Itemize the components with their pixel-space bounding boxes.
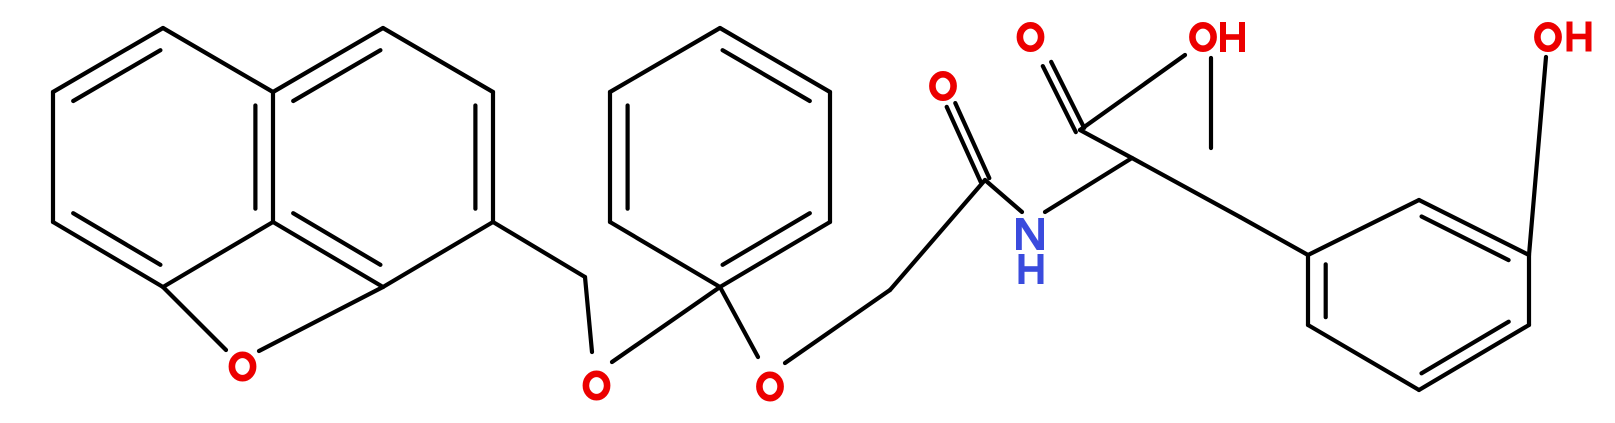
- node OH7 phenol hydroxyl: [1537, 25, 1558, 48]
- wire bond K5-K6 (double): [1306, 255, 1310, 325]
- wire bond A6-A1 (double): [53, 28, 163, 92]
- node O4 amide carbonyl O: [932, 74, 953, 97]
- wire bond B3-D1: [493, 222, 585, 277]
- node N1 amide nitrogen: [1016, 218, 1022, 250]
- wire bond O3-E1: [785, 290, 890, 363]
- wire bond A4-A5 (double): [53, 222, 163, 287]
- wire bond D1-O2: [585, 277, 592, 352]
- wire bond OH6-CH3 dangling: [1209, 58, 1213, 148]
- wire bond K2-K3: [1527, 255, 1531, 325]
- wire bond C6-C1: [610, 28, 720, 92]
- wire bond G1-H1: [1080, 130, 1132, 158]
- wire bond C4-O3: [720, 287, 758, 357]
- wire bond K2-OH7: [1529, 57, 1546, 255]
- wire bond I1-K6: [1240, 217, 1308, 255]
- wire bond A2-B1 (double): [273, 28, 383, 92]
- wire bond K3-K4 (double): [1419, 325, 1529, 390]
- wire bond C3-C4 (double): [720, 222, 830, 287]
- wire bond C5-C6 (double): [608, 92, 612, 222]
- wire bond B4-A3 (double): [273, 222, 383, 287]
- wire bond A4-O1: [163, 287, 226, 350]
- wire bond F1-N1: [985, 180, 1022, 212]
- wire bond K1-K2 (double): [1419, 200, 1529, 255]
- wire bond E1-F1: [890, 180, 985, 290]
- node O3 ester oxygen: [759, 375, 780, 398]
- wire bond B3-B4: [383, 222, 493, 287]
- node H of NH: [1019, 254, 1025, 284]
- wire bond B1-B2: [383, 28, 493, 92]
- node O5 acid carbonyl O: [1020, 25, 1041, 48]
- wire bond G1-I1: [1132, 158, 1240, 217]
- wire bond C2-C3: [828, 92, 832, 222]
- wire bond O2-C4: [612, 287, 720, 362]
- wire bond B2-B3 (double): [491, 92, 495, 222]
- wire bond K6-K1: [1308, 200, 1419, 255]
- node O1 ring oxygen: [232, 355, 253, 378]
- wire bond F1=O4 (double): [955, 103, 989, 178]
- node OH6 acid hydroxyl: [1192, 25, 1213, 48]
- wire bond A5-A6: [51, 92, 55, 222]
- wire bond H1-OH6: [1080, 55, 1185, 130]
- wire bond H1=O5 (double): [1051, 62, 1084, 128]
- wire bond N1-G1: [1045, 158, 1132, 212]
- wire bond A2-A3 (double): [271, 92, 275, 222]
- wire bond A1-A2: [163, 28, 273, 92]
- wire bond A3-A4: [163, 222, 273, 287]
- node O2 ester oxygen: [586, 374, 607, 397]
- wire bond C4-C5: [610, 222, 720, 287]
- wire bond O1-B4: [259, 287, 383, 351]
- wire bond K4-K5: [1308, 325, 1419, 390]
- wire bond C1-C2 (double): [720, 28, 830, 92]
